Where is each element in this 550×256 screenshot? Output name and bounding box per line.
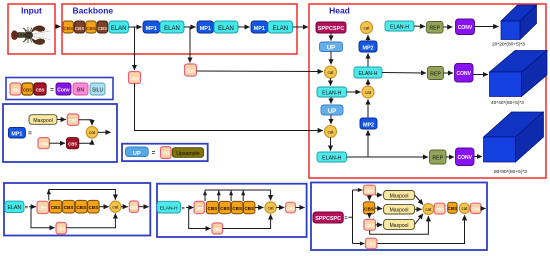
svg-text:CBS: CBS (435, 207, 444, 212)
wire CONV1 to out1 (473, 26, 498, 28)
wire REP2 to CONV2 (444, 72, 454, 74)
CBS spp last (471, 203, 482, 213)
svg-text:Input: Input (21, 6, 42, 16)
ELAN-H 2 (317, 152, 347, 162)
svg-text:20*20*(80+5)*3: 20*20*(80+5)*3 (492, 41, 525, 47)
SPPCSPC legend button (313, 212, 343, 223)
ELAN 2 (214, 21, 238, 33)
ELAN 3 (268, 21, 293, 33)
wire cbsbl to cbsdark (49, 142, 65, 144)
svg-text:ELAN: ELAN (164, 26, 180, 32)
CONV 2 (455, 64, 474, 83)
wire elanh eq to cbs1 (186, 207, 194, 209)
wire cbsmid to maxpool3 (376, 224, 383, 226)
UP 1 (320, 42, 343, 52)
MP1 a (143, 21, 160, 33)
CBS elanh peach1 (194, 201, 205, 213)
svg-text:CBS: CBS (51, 205, 61, 210)
wire ELAN1 to MP1b (184, 26, 196, 28)
output box 1 (501, 5, 537, 40)
svg-text:SILU: SILU (92, 87, 104, 93)
wire cat elanh to cbs right (276, 207, 284, 209)
svg-text:cat: cat (461, 206, 468, 211)
wire CONV2 to out2 (473, 74, 488, 76)
wire cbsbottom to cat2 (377, 215, 465, 243)
wire cbsmid bottom to cat1 (370, 216, 429, 234)
ELAN 0 (109, 21, 129, 33)
svg-text:CBS: CBS (38, 206, 47, 211)
svg-text:REP: REP (432, 156, 443, 162)
arrowheads elanh bypass (203, 190, 245, 195)
svg-text:CBS: CBS (130, 76, 139, 81)
MP1 legend box (3, 104, 117, 162)
ELAN legend button (5, 201, 24, 213)
svg-text:CONV: CONV (456, 71, 471, 77)
REP 1 (427, 22, 444, 34)
svg-text:REP: REP (430, 72, 441, 78)
svg-text:CBS: CBS (39, 142, 48, 147)
CBS elanh gold2 (219, 201, 231, 213)
svg-text:UP: UP (133, 151, 141, 157)
svg-text:ELAN: ELAN (111, 26, 127, 32)
svg-text:CBS: CBS (23, 87, 32, 92)
svg-text:ELAN: ELAN (8, 205, 22, 211)
MP1 b (197, 21, 214, 33)
svg-text:MP1: MP1 (11, 131, 22, 137)
svg-text:CONV: CONV (458, 25, 473, 31)
CBS spp bottom (366, 238, 377, 249)
wire elan out (139, 206, 149, 208)
svg-text:=: = (50, 88, 54, 94)
svg-text:ELAN-H: ELAN-H (322, 156, 341, 162)
svg-text:MP2: MP2 (362, 45, 373, 51)
Upsample legend (172, 148, 203, 158)
Maxpool legend (29, 115, 57, 125)
wire SPPCSPC to UP1 (330, 33, 332, 41)
svg-text:MP1: MP1 (254, 26, 265, 32)
CBS legend box (6, 78, 113, 100)
CBS spp r1 (434, 203, 445, 214)
CBS backbone 2 (74, 21, 84, 33)
CBS mp1 top (67, 114, 78, 125)
svg-text:cat: cat (327, 129, 334, 134)
svg-text:40*40*(80+5)*3: 40*40*(80+5)*3 (491, 100, 524, 106)
svg-text:CBS: CBS (195, 206, 204, 211)
CONV 3 (456, 148, 475, 166)
CBS elan gold1 (49, 200, 61, 213)
svg-text:CBS: CBS (286, 206, 295, 211)
svg-text:CBS: CBS (161, 151, 170, 156)
wire ELAN3 to SPPCSPC (293, 26, 308, 28)
CONV 1 (456, 19, 475, 35)
svg-text:cat: cat (425, 207, 432, 212)
CBS elan right (129, 201, 138, 212)
wire cat mp1 out (98, 131, 111, 133)
svg-text:Maxpool: Maxpool (390, 193, 409, 199)
svg-text:CBS: CBS (98, 26, 108, 31)
wire ELANH1 to catmid (347, 91, 361, 93)
svg-text:CBS: CBS (471, 207, 480, 212)
svg-text:ELAN-H: ELAN-H (322, 91, 341, 97)
wire maxpool to cbs top (57, 119, 66, 121)
svg-text:CBS: CBS (76, 205, 86, 210)
CBS spp mid (364, 219, 376, 230)
wire elan bottom branch (31, 207, 55, 228)
Maxpool 2 (384, 205, 415, 214)
svg-text:ELAN-H: ELAN-H (160, 205, 178, 211)
CBS mp1 bottom left (38, 138, 49, 149)
arrowhead elan bypass up (47, 189, 51, 194)
svg-text:=: = (152, 151, 156, 157)
arrowhead spp bottom branch (360, 242, 365, 246)
svg-text:MP1: MP1 (146, 26, 157, 32)
wire elanh bottom branch (189, 208, 211, 229)
svg-text:CBS: CBS (88, 205, 98, 210)
wire REP1 to CONV1 (443, 26, 452, 28)
Conv legend (56, 83, 71, 95)
svg-text:MP2: MP2 (363, 122, 374, 128)
svg-text:=: = (344, 216, 347, 222)
CBS elan gold4 (88, 200, 100, 213)
svg-text:ELAN: ELAN (218, 26, 234, 32)
cat elan (110, 201, 121, 212)
wire ELANH2 to REP3 (347, 156, 429, 158)
svg-text:SPPCSPC: SPPCSPC (318, 26, 345, 32)
REP 2 (428, 67, 444, 80)
svg-text:cat: cat (327, 70, 334, 75)
svg-text:=: = (25, 205, 28, 211)
svg-text:CBS: CBS (86, 26, 96, 31)
svg-text:ELAN-H: ELAN-H (358, 71, 377, 77)
ELAN-H 1 (317, 87, 347, 97)
svg-text:cat: cat (112, 205, 119, 210)
cat 2 (325, 126, 337, 138)
arrowhead spp top branch (358, 188, 363, 192)
CBS t2 (185, 64, 197, 76)
svg-text:CBS: CBS (364, 206, 374, 211)
Input box (8, 4, 55, 54)
CBS spp top (363, 185, 375, 195)
svg-text:CBS: CBS (129, 205, 138, 210)
svg-text:CBS: CBS (365, 223, 374, 228)
wire cbsgold down (368, 214, 370, 218)
ELAN-H top (385, 21, 414, 31)
svg-text:cat: cat (365, 90, 372, 95)
wire cbsdark to cat mp1 (79, 140, 92, 144)
MP1 c (251, 21, 268, 33)
wire elan bottom to cat (66, 214, 115, 228)
UP legend box (122, 144, 208, 161)
svg-text:cat: cat (363, 25, 370, 30)
svg-text:CBS: CBS (365, 188, 374, 193)
wire cbstop to cat mp1 (79, 120, 92, 126)
svg-text:MP1: MP1 (200, 26, 211, 32)
svg-text:CBS: CBS (232, 206, 242, 211)
SPPCSPC (316, 22, 346, 33)
CBS elanh bottom (212, 223, 223, 234)
svg-text:UP: UP (328, 109, 336, 115)
CBS mp1 dark red (67, 138, 79, 149)
svg-text:CBS: CBS (208, 206, 218, 211)
Maxpool 1 (384, 191, 415, 200)
svg-text:SPPCSPC: SPPCSPC (315, 216, 341, 222)
MP2 1 (359, 41, 377, 52)
wire cbsgold to maxpool2 (375, 207, 383, 210)
CBS elanh gold4 (244, 201, 255, 213)
wire tap2 down to CBS t2 (189, 27, 191, 63)
svg-text:CBS: CBS (448, 206, 458, 211)
cat mp1 (86, 127, 98, 139)
CBS legend gold (22, 83, 33, 95)
wire elanh bottom to cat (223, 214, 271, 228)
wire maxpool1 to cat (415, 195, 423, 205)
CBS t1 (129, 72, 141, 84)
wire UP1 to cat1 (330, 52, 332, 65)
wire cat elan to cbs right (121, 206, 128, 208)
UP 2 (321, 105, 343, 115)
cat 1 (325, 66, 337, 78)
svg-text:CBS: CBS (36, 87, 45, 92)
svg-text:CBS: CBS (220, 206, 230, 211)
svg-text:Maxpool: Maxpool (390, 223, 409, 229)
REP 3 (430, 150, 447, 164)
wire cat2 to ELANH2 (330, 138, 332, 151)
lobster image (11, 26, 50, 45)
svg-text:cat: cat (268, 205, 275, 210)
svg-text:CBS: CBS (244, 206, 254, 211)
wire CONV3 to out3 (474, 156, 482, 158)
CBS spp r2 gold (448, 202, 458, 213)
ELAN legend box (4, 183, 150, 236)
svg-text:UP: UP (327, 45, 335, 51)
wire maxpool3 to cat (415, 214, 423, 225)
wire tap1 down to CBS t1 (134, 27, 136, 70)
svg-text:=: = (181, 206, 184, 212)
svg-text:Conv: Conv (57, 87, 70, 93)
SILU legend (90, 83, 105, 95)
CBS elan gold2 (63, 200, 75, 213)
CBS backbone 1 (63, 21, 73, 33)
ELAN-H legend box (157, 184, 307, 237)
wire UP2 to cat2 (330, 115, 332, 124)
wire elan eq to cbs1 (29, 206, 36, 208)
svg-text:CBS: CBS (213, 227, 222, 232)
CBS legend peach (10, 83, 21, 95)
svg-text:ELAN: ELAN (272, 26, 288, 32)
svg-text:CBS: CBS (75, 26, 85, 31)
svg-text:CBS: CBS (57, 227, 66, 232)
svg-text:Head: Head (329, 6, 350, 16)
Backbone box (62, 4, 297, 54)
CBS elanh gold3 (232, 201, 243, 213)
svg-text:cat: cat (89, 130, 96, 135)
CBS backbone 4 (97, 21, 107, 33)
svg-text:CBS: CBS (63, 26, 73, 31)
wire CBS t1 to cat2 (135, 84, 323, 131)
CBS backbone 3 (86, 21, 96, 33)
wire MP2-1 to cat top (367, 35, 369, 41)
wire elanh out (295, 207, 304, 209)
svg-text:CBS: CBS (68, 142, 77, 147)
wire gold4 to cat elan (99, 206, 109, 208)
svg-text:CBS: CBS (69, 118, 78, 123)
cat elanh (265, 202, 276, 213)
SPPCSPC legend box (311, 183, 487, 251)
svg-text:CONV: CONV (457, 155, 472, 161)
svg-text:BN: BN (77, 87, 84, 93)
CBS legend dark red (34, 83, 46, 95)
MP1 legend button (8, 127, 25, 138)
wire maxpool2 to cat (415, 208, 422, 210)
cat top (361, 22, 373, 34)
MP2 2 (360, 118, 377, 129)
output box 2 (490, 51, 548, 97)
CBS elan peach1 (37, 201, 49, 213)
svg-text:Upsample: Upsample (176, 151, 199, 157)
CBS elanh right (286, 202, 296, 213)
ELAN-H legend button (157, 201, 181, 213)
CBS elan gold3 (75, 200, 87, 213)
svg-text:CBS: CBS (186, 69, 195, 74)
cat spp 1 (423, 204, 434, 215)
wire spp out (481, 208, 486, 210)
wire cbstop to maxpool1 (376, 194, 383, 196)
CBS up legend (161, 147, 172, 159)
wire elan top bypass (49, 190, 116, 201)
svg-text:Maxpool: Maxpool (390, 208, 409, 214)
wire spp split (349, 190, 365, 244)
wire gold4 to cat elanh (255, 207, 264, 209)
wire ELANH3 to REP2 (382, 72, 426, 75)
wire elanh top bypass (205, 190, 271, 200)
BN legend (73, 83, 88, 95)
wire CBS t2 to cat1 (197, 70, 323, 73)
svg-text:REP: REP (429, 26, 440, 32)
wire ELANHtop to REP1 (414, 25, 425, 28)
CBS spp gold (363, 202, 374, 214)
wire ELANH3 to MP2-1 (367, 53, 369, 67)
wire ELANH1 to UP2 (330, 97, 332, 104)
svg-text:=: = (28, 131, 32, 137)
svg-text:CBS: CBS (367, 242, 376, 247)
CBS elanh gold1 (206, 201, 218, 213)
Maxpool 3 (384, 219, 415, 229)
output box 3 (484, 112, 544, 162)
ELAN-H 3 (354, 67, 382, 78)
ELAN 1 (160, 21, 184, 33)
wire catmid to ELANH3 (367, 79, 369, 86)
wire MP2-2 to catmid (367, 99, 369, 118)
svg-text:Maxpool: Maxpool (33, 118, 53, 124)
svg-text:ELAN-H: ELAN-H (390, 25, 409, 31)
wire input to backbone (55, 26, 61, 28)
CBS elan bottom (56, 223, 66, 235)
wire cat1 to ELANH1 (330, 78, 332, 86)
wire ELAN2 to MP1c (238, 26, 250, 28)
wire ELAN0 to MP1a (128, 26, 141, 28)
cat spp 2 (459, 203, 469, 213)
svg-text:CBS: CBS (64, 205, 74, 210)
svg-text:CBS: CBS (11, 87, 20, 92)
UP legend button (126, 147, 149, 157)
wire REP3 to CONV3 (446, 156, 454, 158)
wire branch row3 to MP2-2 (367, 130, 369, 157)
svg-text:80*80*(80+5)*3: 80*80*(80+5)*3 (494, 169, 527, 175)
cat mid (362, 86, 374, 98)
svg-text:Backbone: Backbone (73, 6, 114, 16)
Head box (309, 4, 546, 178)
wire cbstop down (368, 195, 370, 200)
